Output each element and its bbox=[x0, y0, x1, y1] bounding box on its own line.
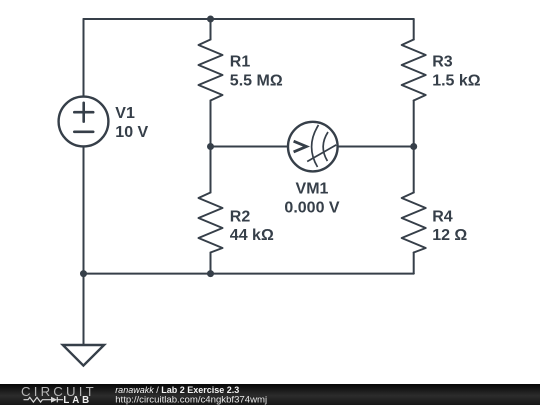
voltmeter VM1 bbox=[288, 122, 338, 172]
wire ground stem bbox=[83, 274, 85, 345]
wire R1 bottom lead bbox=[210, 101, 212, 147]
wire R2 bottom lead bbox=[210, 253, 212, 274]
svg-text:10 V: 10 V bbox=[115, 124, 148, 141]
svg-text:44 kΩ: 44 kΩ bbox=[230, 227, 274, 244]
node dot bottom (R2/bottom rail) bbox=[207, 270, 214, 277]
wire R1 top lead bbox=[210, 19, 212, 40]
wire R3 bottom lead bbox=[413, 101, 415, 147]
svg-text:0.000 V: 0.000 V bbox=[284, 200, 339, 217]
node dot middle-left (R1/R2/wire) bbox=[207, 143, 214, 150]
wire R3 top lead bbox=[413, 19, 415, 40]
resistor R4 zigzag bbox=[402, 193, 426, 253]
wire R4 bottom lead bbox=[413, 253, 415, 274]
resistor R2 zigzag bbox=[199, 193, 223, 253]
wire middle right (voltmeter to right rail) bbox=[338, 146, 414, 148]
node dot middle-right (R3/R4/wire) bbox=[410, 143, 417, 150]
svg-text:R4: R4 bbox=[432, 209, 453, 226]
ground bbox=[63, 345, 104, 366]
node dot top (R1/top rail) bbox=[207, 16, 214, 23]
label V1 value bbox=[115, 54, 480, 245]
svg-text:R2: R2 bbox=[230, 209, 251, 226]
wire top rail bbox=[84, 18, 414, 20]
svg-text:V1: V1 bbox=[115, 105, 135, 122]
resistor R1 zigzag bbox=[199, 40, 223, 101]
resistor R3 zigzag bbox=[402, 40, 426, 101]
svg-text:http://circuitlab.com/c4ngkbf3: http://circuitlab.com/c4ngkbf374wmj bbox=[115, 394, 267, 405]
wire R2 top lead bbox=[210, 147, 212, 193]
svg-text:VM1: VM1 bbox=[296, 181, 329, 198]
svg-text:R1: R1 bbox=[230, 54, 251, 71]
svg-text:R3: R3 bbox=[432, 54, 453, 71]
node dot bottom-left (ground junction) bbox=[80, 270, 87, 277]
CircuitLab logo schematic squiggle bbox=[24, 397, 64, 403]
svg-text:LAB: LAB bbox=[63, 395, 92, 405]
svg-text:5.5 MΩ: 5.5 MΩ bbox=[230, 73, 283, 90]
wire R4 top lead bbox=[413, 147, 415, 193]
wire bottom rail bbox=[84, 273, 414, 275]
voltage source V1 bbox=[59, 97, 109, 147]
wire middle left (junction to voltmeter) bbox=[211, 146, 289, 148]
wire left rail lower (V1 bottom to bottom rail) bbox=[83, 146, 85, 273]
wire left rail upper (to V1 top) bbox=[83, 19, 85, 97]
svg-text:1.5 kΩ: 1.5 kΩ bbox=[432, 73, 481, 90]
svg-text:12 Ω: 12 Ω bbox=[432, 227, 467, 244]
